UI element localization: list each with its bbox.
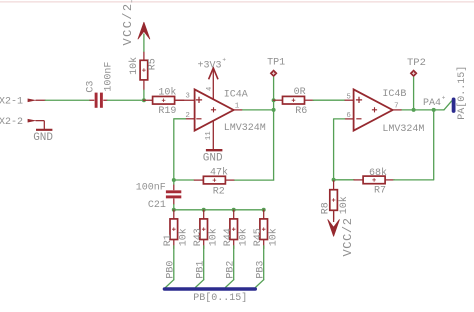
- svg-text:R6: R6: [295, 106, 307, 117]
- svg-text:PB0: PB0: [166, 261, 177, 279]
- svg-text:10k: 10k: [338, 196, 350, 214]
- wire IC4B pin6 to node E: [334, 119, 345, 180]
- op-amp IC4A: [195, 89, 234, 130]
- power pin 11 IC4A (GND): [212, 121, 214, 150]
- wire IC4B output stub: [393, 109, 402, 111]
- ground GND (IC4A): [206, 149, 223, 151]
- resistor R5 body: [140, 60, 148, 80]
- wire X2-1 to C3: [45, 99, 89, 101]
- svg-text:10k: 10k: [128, 57, 140, 75]
- svg-text:0R: 0R: [294, 87, 306, 98]
- svg-text:R44: R44: [223, 228, 234, 246]
- svg-text:R7: R7: [374, 185, 386, 196]
- svg-text:R1: R1: [163, 234, 174, 246]
- junction node D1: [202, 208, 206, 212]
- svg-text:R19: R19: [158, 106, 176, 117]
- svg-text:10k: 10k: [267, 228, 279, 246]
- power pin 4 IC4A (+3V3): [212, 68, 214, 99]
- op-amp IC4B: [354, 89, 393, 130]
- wire C3 to node A: [107, 99, 144, 101]
- bus entry PB1: [196, 280, 204, 288]
- supply arrow VCC/2 (down): [328, 220, 340, 237]
- junction node D0: [172, 208, 176, 212]
- wire node E to R7: [334, 179, 354, 181]
- wire TP2 vertical: [413, 77, 415, 110]
- wire R7 to node F: [394, 110, 434, 180]
- test point TP1: [270, 69, 278, 77]
- svg-text:GND: GND: [203, 152, 223, 164]
- junction node D2: [232, 208, 236, 212]
- connector pin X2-2: [28, 119, 45, 123]
- wire R44 to bus entry: [233, 246, 235, 280]
- wire R2 to node B: [235, 179, 274, 181]
- resistor R8 body: [330, 180, 338, 219]
- wire IC4B output to bus entry: [402, 109, 444, 111]
- wire R1 to bus entry: [173, 246, 175, 280]
- resistor R7 body: [354, 176, 395, 184]
- svg-text:R2: R2: [213, 186, 225, 197]
- svg-text:X2-2: X2-2: [0, 117, 23, 128]
- svg-text:4: 4: [206, 87, 214, 91]
- svg-text:R43: R43: [193, 228, 204, 246]
- wire R5 top pin: [143, 52, 145, 61]
- svg-text:TP2: TP2: [407, 57, 426, 69]
- resistor R2 body: [194, 176, 235, 184]
- junction node D3: [262, 208, 266, 212]
- svg-text:R5: R5: [148, 58, 159, 70]
- supply arrow +3V3: [209, 68, 218, 79]
- svg-text:10k: 10k: [207, 228, 219, 246]
- svg-text:PB1: PB1: [196, 261, 207, 279]
- resistor R19 body: [143, 96, 184, 104]
- wire R8 to VCC/2 arrow: [333, 210, 335, 222]
- junction node A: [142, 98, 146, 102]
- svg-text:LMV324M: LMV324M: [382, 124, 424, 135]
- junction node B upper: [272, 98, 276, 102]
- bus entry PB2: [226, 280, 234, 288]
- svg-text:47k: 47k: [210, 166, 228, 178]
- svg-text:+: +: [222, 57, 226, 64]
- wire IC4B pin6 stub: [345, 118, 354, 120]
- svg-text:10k: 10k: [158, 87, 176, 99]
- svg-text:IC4B: IC4B: [382, 89, 406, 100]
- resistor R6 body: [273, 96, 314, 104]
- wire IC4A output stub: [234, 109, 243, 111]
- svg-text:TP1: TP1: [267, 58, 285, 69]
- svg-text:3: 3: [185, 93, 190, 101]
- bus entry PB3: [256, 280, 264, 288]
- svg-text:IC4A: IC4A: [224, 90, 248, 101]
- capacitor C21: [166, 185, 181, 205]
- junction node C: [172, 178, 176, 182]
- wire node C to C21: [173, 180, 175, 185]
- svg-text:LMV324M: LMV324M: [224, 123, 266, 134]
- svg-text:5: 5: [346, 93, 351, 101]
- svg-text:PA4: PA4: [423, 98, 441, 109]
- wire IC4A pin2 to node C: [174, 119, 186, 180]
- svg-text:R8: R8: [321, 202, 332, 214]
- wire X2-2 to ground: [43, 121, 45, 129]
- svg-text:R45: R45: [253, 228, 264, 246]
- junction node E: [332, 178, 336, 182]
- svg-text:C3: C3: [85, 81, 96, 93]
- bus PB[0..15]: [165, 287, 256, 291]
- resistor R1 body: [170, 210, 178, 249]
- bus entry PB0: [166, 280, 174, 288]
- svg-text:+3V3: +3V3: [198, 60, 222, 71]
- resistor R43 body: [200, 210, 208, 249]
- svg-text:VCC/2_1: VCC/2_1: [121, 0, 135, 46]
- svg-text:10k: 10k: [237, 228, 249, 246]
- wire R45 to bus entry: [263, 246, 265, 280]
- wire IC4A pin2 stub: [186, 118, 195, 120]
- resistor R45 body: [260, 210, 268, 249]
- frame border line (top): [0, 1, 474, 3]
- ground GND (X2-2): [36, 129, 52, 131]
- wire node C to R2: [174, 179, 194, 181]
- wire R6 to IC4B pin5: [313, 99, 345, 101]
- svg-text:VCC/2: VCC/2: [341, 217, 355, 256]
- svg-text:100nF: 100nF: [104, 62, 115, 92]
- wire R5 bottom pin: [143, 80, 145, 90]
- wire R43 to bus entry: [203, 246, 205, 280]
- connector pin X2-1: [28, 98, 46, 102]
- wire IC4A output to node B: [243, 109, 274, 111]
- bus entry PA4: [444, 101, 452, 110]
- capacitor C3: [90, 93, 108, 108]
- svg-text:PB2: PB2: [226, 261, 237, 279]
- svg-text:PB[0..15]: PB[0..15]: [193, 292, 247, 304]
- wire R5 to node A: [143, 90, 145, 100]
- wire node D horizontal: [174, 209, 264, 211]
- wire VCC/2 arrow to R5: [143, 34, 145, 52]
- svg-text:C21: C21: [148, 200, 166, 211]
- svg-text:PB3: PB3: [256, 261, 267, 279]
- svg-text:68k: 68k: [369, 167, 387, 179]
- junction node B output: [272, 108, 276, 112]
- wire TP1 vertical (node B): [273, 77, 275, 180]
- bus PA[0..15]: [452, 99, 456, 111]
- svg-text:PA[0..15]: PA[0..15]: [456, 66, 468, 120]
- svg-text:10k: 10k: [177, 228, 189, 246]
- svg-text:+: +: [442, 95, 446, 102]
- wire R19 to IC4A pin3: [175, 99, 195, 101]
- svg-text:X2-1: X2-1: [0, 97, 23, 108]
- svg-text:GND: GND: [33, 132, 53, 144]
- svg-text:100nF: 100nF: [136, 183, 166, 194]
- resistor R44 body: [230, 210, 238, 249]
- test point TP2: [410, 69, 418, 77]
- junction node F: [432, 108, 436, 112]
- junction TP2 node: [412, 108, 416, 112]
- svg-text:11: 11: [205, 131, 213, 141]
- wire IC4B pin5 stub: [345, 99, 354, 101]
- wire C21 to node D: [173, 205, 175, 210]
- supply arrow VCC/2_1: [138, 22, 150, 39]
